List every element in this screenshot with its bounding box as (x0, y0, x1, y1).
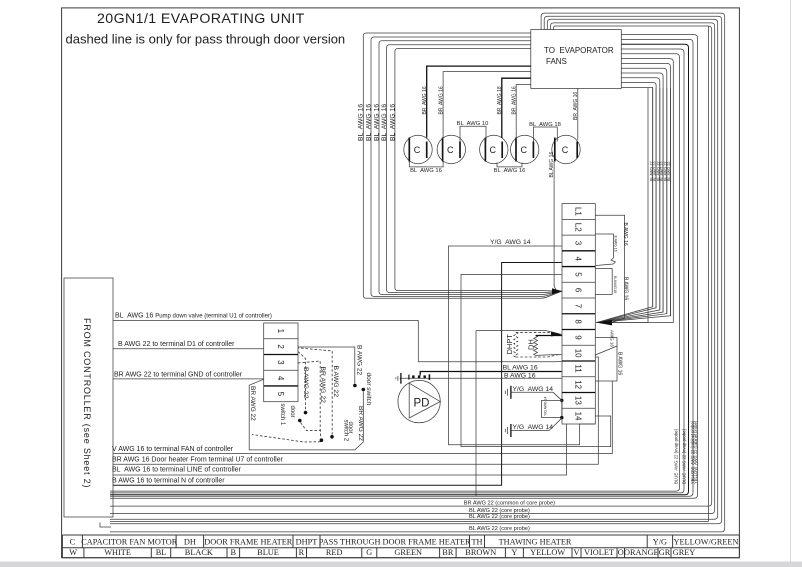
dashed wire B AWG22 switch 2 riser (298, 348, 332, 435)
svg-text:ORANGE: ORANGE (624, 548, 659, 557)
svg-text:BR AWG 16: BR AWG 16 (511, 86, 517, 114)
wire BR fan3 feed (502, 78, 531, 138)
jumper L2-4 (595, 234, 613, 258)
svg-text:B AWG 16: B AWG 16 (622, 277, 628, 300)
fan motor capacitors C1-C5 (404, 135, 580, 163)
svg-text:BR AWG 22 (common of core prob: BR AWG 22 (common of core probe) (464, 501, 555, 507)
svg-text:BL AWG 16: BL AWG 16 (494, 168, 526, 174)
PD connector line (400, 377, 430, 379)
svg-text:Y/G AWG 14: Y/G AWG 14 (513, 424, 554, 431)
svg-text:5: 5 (276, 392, 285, 397)
svg-text:switch 1: switch 1 (279, 404, 285, 426)
svg-text:BLUE AWG 22 (evap probe): BLUE AWG 22 (evap probe) (682, 428, 687, 484)
svg-text:B AWG 16: B AWG 16 (504, 373, 536, 380)
svg-text:11: 11 (574, 364, 583, 373)
wire BL AWG16 LINE (113, 424, 567, 475)
DHPT bottom lead dashed (516, 355, 558, 357)
terminal block X2 (L1-14) (562, 204, 595, 424)
svg-text:6: 6 (574, 288, 583, 293)
svg-text:VIOLET: VIOLET (584, 548, 614, 557)
svg-text:B AWG 22 to terminal D1 of con: B AWG 22 to terminal D1 of controller (118, 341, 235, 348)
door switch contact dot b (362, 388, 366, 392)
wires TH band box to controller (110, 35, 698, 499)
page edge line (790, 0, 792, 562)
svg-text:BL AWG 16 Pump down valve (te: BL AWG 16 Pump down valve (terminal U1 o… (115, 312, 272, 319)
PD earth symbol (400, 373, 402, 384)
svg-text:B AWG 22: B AWG 22 (356, 345, 363, 375)
svg-text:Y/G AWG 14: Y/G AWG 14 (543, 397, 547, 416)
svg-text:12: 12 (574, 380, 583, 389)
svg-text:GR: GR (659, 548, 671, 557)
evaporator fans box (531, 30, 622, 89)
wire gnd2 to junction 14 (511, 418, 562, 430)
wire B AWG22 to D1 (block1 cell2) (113, 348, 264, 350)
earth symbol 2 (510, 424, 512, 437)
wire B AWG16 N (113, 263, 562, 486)
svg-text:14: 14 (574, 412, 583, 421)
svg-text:8: 8 (574, 319, 583, 324)
svg-text:BR AWG 18: BR AWG 18 (497, 86, 503, 114)
svg-text:B AWG 16 to terminal N of cont: B AWG 16 to terminal N of controller (112, 477, 225, 484)
wire BR fan4 feed (516, 85, 531, 140)
svg-text:BL AWG 10: BL AWG 10 (457, 121, 489, 127)
svg-text:G: G (366, 548, 372, 557)
svg-text:door switch: door switch (365, 373, 372, 406)
svg-text:DOOR FRAME HEATER: DOOR FRAME HEATER (204, 538, 293, 547)
svg-text:C: C (520, 145, 527, 155)
svg-text:BL AWG 16 to terminal LINE of: BL AWG 16 to terminal LINE of controller (112, 467, 242, 474)
svg-text:Y: Y (511, 548, 517, 557)
wire node8 to DH (476, 331, 562, 335)
svg-text:10: 10 (574, 349, 583, 358)
core probe wires loop (110, 13, 725, 532)
wire pump down into terminal 10 (556, 360, 562, 363)
wire BL AWG16 fans 1-2 bottom (409, 162, 443, 167)
svg-text:C: C (447, 145, 454, 155)
svg-text:20GN1/1 EVAPORATING UNIT: 20GN1/1 EVAPORATING UNIT (97, 11, 305, 27)
svg-text:BR AWG 16: BR AWG 16 (573, 92, 579, 120)
terminal block X1 (1-5) (264, 323, 298, 402)
wire BL AWG10 fans 2-3 top (460, 126, 486, 141)
svg-text:4: 4 (276, 376, 285, 381)
svg-text:Y/G: Y/G (653, 538, 667, 547)
wire BL AWG18 fans 4-5 top (533, 127, 557, 142)
svg-text:DH: DH (184, 538, 196, 547)
junction dot 12/13 (560, 399, 563, 402)
svg-text:CAPACITOR FAN MOTOR: CAPACITOR FAN MOTOR (81, 538, 178, 547)
svg-text:B AWG 16: B AWG 16 (614, 236, 618, 252)
wire PD connector to terminal 11 (430, 377, 562, 379)
wire BL AWG16 fans 3-4 bottom (497, 163, 522, 167)
svg-text:7: 7 (574, 304, 583, 309)
PD valve circle (398, 380, 440, 422)
PD connector pins (412, 375, 414, 378)
svg-text:DH: DH (526, 339, 535, 350)
legend table (62, 535, 739, 558)
svg-text:FANS: FANS (546, 57, 567, 66)
svg-text:O: O (618, 548, 624, 557)
svg-text:R: R (299, 548, 305, 557)
svg-text:BR: BR (442, 548, 454, 557)
svg-text:YELLOW/GREEN: YELLOW/GREEN (674, 538, 739, 547)
svg-text:YELLOW: YELLOW (530, 548, 565, 557)
svg-text:C: C (562, 145, 569, 155)
svg-text:DHPT: DHPT (296, 538, 318, 547)
wire terminal 14 ground link (449, 246, 596, 445)
svg-text:3: 3 (276, 360, 285, 365)
svg-text:C: C (414, 145, 421, 155)
wire B AWG16 PD to terminal 11 (420, 372, 562, 376)
wire V AWG16 FAN (113, 381, 612, 454)
wire riser x476 down (475, 331, 477, 497)
jumper L1 to node8 B AWG16 (595, 215, 624, 322)
extra bus line (110, 521, 709, 523)
svg-text:BL AWG 16: BL AWG 16 (365, 104, 372, 141)
svg-text:switch 2: switch 2 (342, 420, 348, 442)
bottom grey strip (0, 562, 802, 567)
jumper box 13-14 (542, 400, 562, 417)
DHPT heater dashed resistor (514, 332, 518, 357)
svg-text:3: 3 (574, 241, 583, 246)
svg-text:YELLOW AWG 22 (cabinet probe): YELLOW AWG 22 (cabinet probe) (693, 420, 698, 484)
svg-text:L2: L2 (574, 223, 583, 232)
svg-text:B AWG 16: B AWG 16 (617, 352, 623, 375)
wire BR fan2 feed (443, 72, 531, 138)
svg-text:B: B (231, 548, 237, 557)
door switch 1 dot a (304, 411, 308, 415)
DH bottom lead (536, 354, 562, 355)
controller box foot mark (100, 523, 111, 528)
dashed wire BR AWG22 terminal 3 to switch (298, 361, 320, 431)
labels BL AWG 16 x5 (358, 104, 397, 141)
diag terminal 10 to jumper (595, 346, 617, 355)
svg-text:V AWG 16 to terminal FAN of co: V AWG 16 to terminal FAN of controller (112, 446, 234, 453)
svg-text:TH: TH (471, 538, 482, 547)
svg-text:THAWING HEATER: THAWING HEATER (499, 538, 572, 547)
svg-text:DHPT: DHPT (505, 334, 514, 355)
svg-text:W: W (69, 548, 77, 557)
svg-text:RED: RED (326, 548, 343, 557)
svg-text:GREEN: GREEN (394, 548, 422, 557)
svg-text:BL AWG 16: BL AWG 16 (381, 104, 388, 141)
wire BR fan5 feed (577, 88, 579, 140)
svg-text:L1: L1 (574, 207, 583, 216)
svg-text:BLUE: BLUE (257, 548, 279, 557)
svg-text:AWG 16: AWG 16 (610, 330, 615, 347)
wire bundle BL AWG16 x5 to terminal 6 (363, 33, 562, 298)
door switch 2 dot b (330, 435, 334, 439)
jumper 9-12 B AWG16 (595, 338, 617, 382)
wire BR AWG22 to GND (block1 cell4) (113, 378, 264, 380)
wire BL fan5 to terminal 6 (554, 161, 562, 291)
svg-text:BROWN: BROWN (465, 548, 496, 557)
svg-text:door: door (289, 406, 295, 418)
wires box to node8 risers (621, 59, 673, 88)
DHPT top lead dashed (516, 332, 558, 334)
svg-text:BR AWG 16: BR AWG 16 (422, 86, 428, 114)
svg-text:B AWG 16: B AWG 16 (622, 223, 628, 246)
dashed wire switch 2 to loop (252, 435, 321, 443)
wire terminal 14 right link (461, 274, 611, 446)
wire BR AWG22 door switch return (249, 379, 363, 450)
PD valve triangle (409, 383, 440, 418)
svg-text:BL AWG 16: BL AWG 16 (503, 364, 538, 371)
svg-text:BL AWG 22 (core probe): BL AWG 22 (core probe) (469, 514, 530, 520)
door switch contact dot a (353, 384, 357, 388)
svg-text:1: 1 (276, 329, 285, 334)
svg-text:C: C (490, 145, 497, 155)
wire BL AWG16 pump down valve (113, 321, 556, 362)
svg-text:Y/G AWG 14: Y/G AWG 14 (490, 239, 531, 246)
svg-text:BR AWG 16: BR AWG 16 (438, 86, 444, 114)
svg-text:2: 2 (276, 344, 285, 349)
svg-text:dashed line is only for pass t: dashed line is only for pass through doo… (66, 31, 346, 46)
svg-text:V: V (574, 548, 580, 557)
door switch 2 dot a (320, 438, 324, 442)
svg-text:BLUE AWG 22 (evap probe): BLUE AWG 22 (evap probe) (673, 428, 678, 484)
dashed wire door switch 1 to door switch 2 (301, 423, 321, 438)
dashed wire B AWG22 to door switch 1 (298, 352, 306, 411)
svg-text:PASS THROUGH DOOR FRAME HEATER: PASS THROUGH DOOR FRAME HEATER (319, 538, 471, 547)
svg-text:B AWG 22: B AWG 22 (332, 366, 339, 398)
svg-text:BR AWG 22 to terminal GND of c: BR AWG 22 to terminal GND of controller (114, 371, 243, 378)
svg-text:BL AWG 16: BL AWG 16 (410, 168, 442, 174)
DH top lead (536, 335, 562, 337)
svg-text:BR AWG 22: BR AWG 22 (319, 367, 326, 404)
DH heater resistor (534, 336, 538, 356)
svg-text:BR AWG 22: BR AWG 22 (249, 386, 256, 421)
wire BR AWG16 door heater (113, 357, 598, 464)
svg-text:B AWG 22: B AWG 22 (302, 367, 309, 399)
earth symbol 1 (510, 386, 512, 399)
svg-text:BL: BL (156, 548, 167, 557)
svg-text:TO EVAPORATOR: TO EVAPORATOR (544, 46, 614, 55)
svg-text:BL AWG 16: BL AWG 16 (373, 104, 380, 141)
controller box (64, 278, 113, 517)
svg-text:BLACK: BLACK (185, 548, 213, 557)
svg-text:BR AWG 16 Door heater From ter: BR AWG 16 Door heater From terminal U7 o… (112, 457, 284, 464)
svg-text:B AWG16: B AWG16 (613, 276, 618, 294)
wire gnd1 to junction 13 (511, 392, 562, 400)
svg-text:13: 13 (574, 396, 583, 405)
svg-text:BL AWG 16: BL AWG 16 (389, 104, 396, 141)
node 8 wire fan to risers (596, 88, 670, 325)
tiny labels on riser wires (650, 161, 672, 181)
svg-text:BL AWG 18: BL AWG 18 (529, 122, 561, 128)
svg-text:Y/G AWG 14: Y/G AWG 14 (513, 386, 554, 393)
svg-text:BL AWG 22 (core probe): BL AWG 22 (core probe) (469, 526, 530, 532)
svg-text:FROM CONTROLLER (see Sheet 2): FROM CONTROLLER (see Sheet 2) (82, 318, 92, 488)
jumper 5-6 (595, 269, 612, 295)
svg-text:WHITE: WHITE (104, 548, 131, 557)
svg-text:PD: PD (414, 397, 430, 409)
svg-text:5: 5 (574, 272, 583, 277)
svg-text:4: 4 (574, 257, 583, 262)
door switch 1 dot b (298, 419, 302, 423)
svg-text:9: 9 (574, 335, 583, 340)
wire B AWG22 from terminal 2 to door switch (298, 347, 355, 384)
riser wires continuation (612, 88, 674, 323)
svg-text:BL AWG 16: BL AWG 16 (549, 152, 555, 178)
svg-text:GREY: GREY (673, 548, 696, 557)
svg-text:C: C (70, 538, 76, 547)
junction dot 13/14 (560, 416, 563, 419)
svg-text:BL AWG 16: BL AWG 16 (358, 104, 365, 141)
svg-text:BR AWG 22: BR AWG 22 (357, 406, 364, 441)
wire BR fan1 feed (427, 66, 531, 137)
node 8 left wedge (551, 332, 562, 337)
